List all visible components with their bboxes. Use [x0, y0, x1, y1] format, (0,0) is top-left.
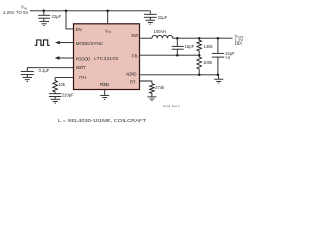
svg-text:L = XEL4030-101ME, COILCRAFT: L = XEL4030-101ME, COILCRAFT: [58, 118, 146, 123]
resistor RFB1 140k: [197, 38, 202, 55]
resistor RFB2 100k: [197, 55, 202, 75]
node VOUT-COUT: [217, 37, 220, 40]
capacitor COUT 22uF x3: [212, 38, 224, 75]
svg-text:EN: EN: [76, 27, 82, 32]
svg-text:22µF: 22µF: [158, 15, 168, 20]
node FB-CFF: [176, 54, 179, 57]
arrow out of PGOOD: [55, 56, 60, 59]
wire VIN pin drop: [107, 11, 109, 24]
op-amp U1 LTC3310S body: [74, 24, 140, 90]
ground for CIN2: [146, 20, 156, 24]
svg-text:100k: 100k: [203, 60, 213, 65]
node AGND-COUT: [217, 74, 220, 77]
ground for RT: [147, 97, 156, 101]
svg-text:15pF: 15pF: [185, 44, 195, 49]
svg-text:140k: 140k: [204, 44, 214, 49]
svg-text:274k: 274k: [155, 85, 165, 90]
inductor L1 100nH: [152, 35, 173, 38]
svg-text:PGND: PGND: [100, 82, 110, 87]
wire SW: [140, 37, 153, 39]
capacitor CIN2 22uF: [144, 11, 157, 20]
svg-text:LTC3310S: LTC3310S: [94, 56, 119, 62]
wire SS/TT: [27, 68, 73, 72]
svg-text:SS/TT: SS/TT: [76, 65, 87, 70]
node AGND-RFB2: [198, 74, 201, 77]
wire VIN rail: [30, 10, 150, 12]
capacitor CITH 220pF: [49, 94, 61, 99]
node VIN-EN: [65, 10, 68, 13]
wire MODE/SYNC: [59, 42, 73, 44]
ground for CSS: [23, 77, 32, 81]
node VIN-C1: [43, 10, 46, 13]
wire FB: [140, 54, 200, 56]
wire ITH: [55, 77, 73, 79]
wire PGOOD: [59, 57, 73, 59]
svg-text:RT: RT: [130, 79, 136, 84]
resistor RITH 10k: [53, 78, 58, 94]
node VOUT-RFB1: [198, 37, 201, 40]
svg-text:0.1µF: 0.1µF: [39, 68, 50, 73]
svg-text:PGOOD: PGOOD: [76, 56, 91, 61]
ground for CITH: [51, 99, 61, 103]
capacitor CIN1 22uF: [38, 11, 50, 21]
wire EN tie to VIN: [66, 11, 74, 29]
svg-text:AGND: AGND: [126, 72, 137, 77]
svg-text:MODE/SYNC: MODE/SYNC: [76, 41, 104, 46]
clock pulse symbol: [35, 40, 50, 45]
capacitor CFF 15pF: [172, 38, 184, 55]
svg-text:ITH: ITH: [79, 75, 86, 80]
resistor RT 274k: [150, 84, 155, 97]
svg-text:22µF: 22µF: [52, 14, 62, 19]
capacitor CSS 0.1uF: [21, 71, 34, 77]
svg-text:220pF: 220pF: [62, 92, 74, 97]
wire RT: [140, 81, 152, 84]
svg-text:2.25V TO 5V: 2.25V TO 5V: [3, 10, 29, 15]
svg-text:100nH: 100nH: [154, 29, 166, 34]
ground for CIN1: [39, 21, 49, 25]
ground for PGND: [100, 90, 109, 100]
node VOUT-CFF: [176, 37, 179, 40]
arrow into MODE/SYNC: [55, 41, 60, 44]
svg-text:10A: 10A: [235, 41, 243, 46]
svg-text:×3: ×3: [225, 55, 230, 60]
svg-text:10k: 10k: [58, 82, 66, 87]
svg-text:VIN: VIN: [105, 28, 111, 34]
svg-text:SW: SW: [131, 33, 139, 38]
node VIN-pin: [106, 10, 109, 13]
wire AGND: [140, 74, 219, 76]
svg-text:FB: FB: [132, 54, 138, 59]
svg-text:and belo: and belo: [164, 104, 180, 108]
ground at AGND: [214, 75, 223, 83]
node FB-RFB1: [198, 54, 201, 57]
wire VOUT: [173, 37, 233, 39]
